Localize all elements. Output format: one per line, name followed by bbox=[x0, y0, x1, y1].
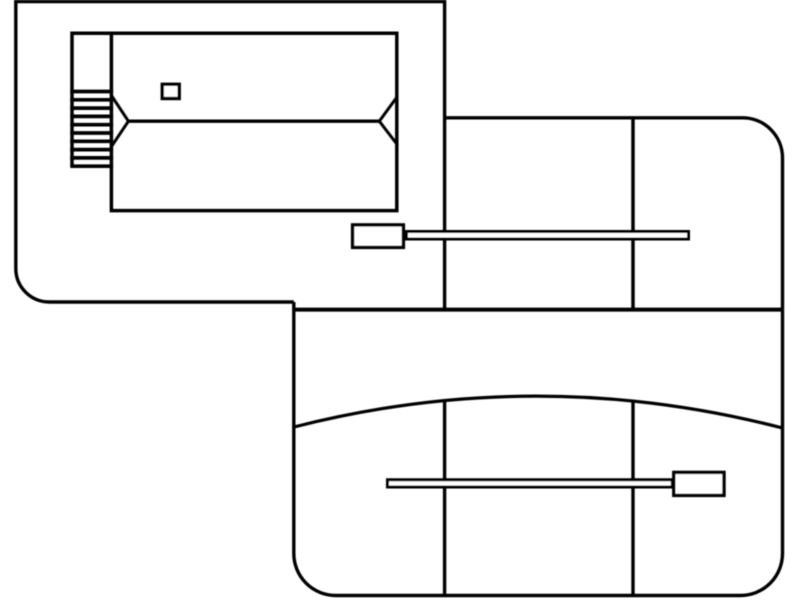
interior divider x=444.6 (block C, below arc) bbox=[443, 401, 446, 596]
building outline C (bottom block, rounded bottom corners) bbox=[294, 302, 783, 596]
curved roof line (block C) bbox=[294, 396, 783, 428]
interior divider x=633 (block C, below arc) bbox=[631, 401, 634, 596]
hatched strip (stairs) bbox=[70, 92, 113, 167]
arrow 1 box (upper left) bbox=[353, 225, 404, 248]
left hip triangle bbox=[111, 96, 128, 147]
top edge of block C bbox=[294, 308, 783, 312]
building outline B (right block, rounded top-right corner) bbox=[445, 118, 783, 310]
chimney (small square) bbox=[162, 84, 179, 98]
arrow 1 shaft (upper) bbox=[407, 232, 689, 240]
right hip triangle bbox=[379, 97, 397, 144]
interior divider x=633 (block B) bbox=[631, 118, 635, 310]
roof ridge line bbox=[128, 119, 379, 122]
arrow 2 shaft (lower) bbox=[388, 480, 673, 487]
arrow 2 box (lower right) bbox=[674, 472, 724, 495]
roof rectangle with hip ends (inner building) bbox=[72, 33, 397, 210]
building outline A (top-left block) bbox=[16, 2, 445, 310]
